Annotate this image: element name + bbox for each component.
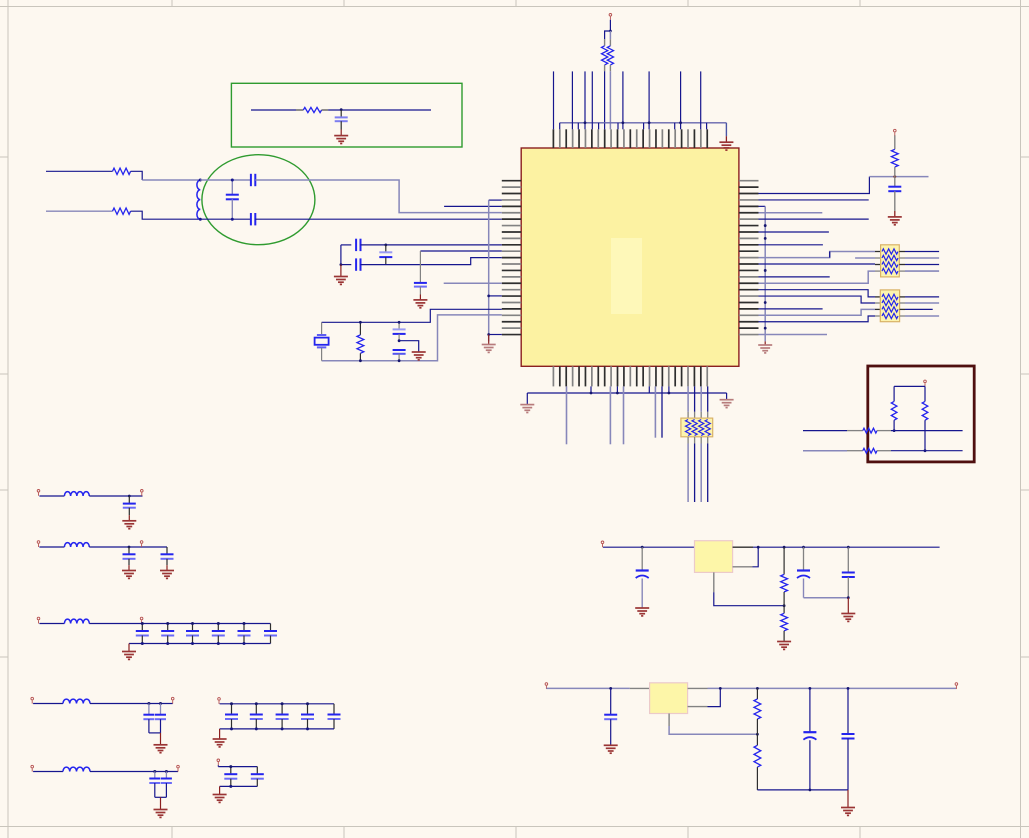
resistor R11 series line B xyxy=(863,448,877,453)
junction pin24 on vertical xyxy=(487,333,490,336)
resistor R9 xyxy=(922,401,928,420)
resistor RP1-2 xyxy=(882,255,898,260)
capacitor C7 vertical xyxy=(385,245,387,252)
wire top rail to U1 pin xyxy=(361,244,502,246)
resistor R13 lower xyxy=(783,606,785,614)
ground c3 xyxy=(122,652,136,660)
junction k23 right vertical xyxy=(764,327,767,330)
wire pin24 link xyxy=(489,334,502,336)
wire reg2 vout xyxy=(688,706,708,708)
capacitor C16 xyxy=(167,624,169,631)
wire bus drop x=598.6 xyxy=(598,123,600,130)
wire to R1 xyxy=(605,31,611,39)
wire vertical top pin x=700.7 xyxy=(700,71,702,129)
wire c5 gnd stem xyxy=(160,797,162,809)
resistor RP3-4 xyxy=(705,420,710,436)
wire long vertical below U1 x=655.4 xyxy=(654,386,656,437)
wire RP2-3 entry stub xyxy=(875,308,880,310)
wire reg2 rail right stub xyxy=(688,687,708,689)
inductor L6 xyxy=(63,767,90,771)
wire input top xyxy=(46,170,113,172)
resistor R14 upper xyxy=(756,688,758,699)
wire c3 rail to ground xyxy=(128,644,130,652)
capacitor C35 xyxy=(610,688,612,714)
ground C14 xyxy=(160,571,174,579)
ground c7 xyxy=(213,795,227,803)
capacitor C36 polarized xyxy=(809,688,811,731)
junction reg1 adj node xyxy=(783,604,786,607)
wire bus drop x=578.3 xyxy=(577,123,579,130)
wire pin k15 out xyxy=(759,276,830,278)
port P2 pull-up xyxy=(894,129,897,135)
junction top bus xyxy=(584,121,587,124)
wire R9 bottom stem xyxy=(924,420,926,451)
resistor R1 xyxy=(604,39,606,46)
wire pull-up node xyxy=(869,176,928,178)
wire RP1-4 entry stub xyxy=(875,270,881,272)
resistor RP2-2 xyxy=(882,300,898,305)
junction c4 b xyxy=(159,702,162,705)
wire R8 top stem xyxy=(893,386,895,401)
wire reg1 rail left xyxy=(603,546,695,548)
wire RP2-1 entry stub xyxy=(875,296,880,298)
resistor R8 xyxy=(891,401,897,420)
port P1 top xyxy=(609,14,612,20)
resistor pack RP2 body xyxy=(880,290,899,322)
wire pin k4 to right vertical xyxy=(759,205,766,207)
port P6 xyxy=(37,541,40,547)
capacitor C23 xyxy=(154,772,156,779)
wire pin k24 light short xyxy=(759,334,828,336)
wire pin k5 light xyxy=(759,212,823,214)
capacitor C28 xyxy=(307,704,309,714)
wire pin drop to bus x=591 xyxy=(590,386,592,393)
ground c5 xyxy=(154,810,168,818)
capacitor C2 series top line xyxy=(250,174,252,186)
wire c2 right xyxy=(89,546,167,548)
wire pin k8 out xyxy=(759,231,829,233)
port P4 xyxy=(37,490,40,496)
ground reg2 xyxy=(841,808,855,816)
junction reg2 rdiv rail xyxy=(756,687,759,690)
junction bottom bus b xyxy=(668,392,671,395)
bottom bus wire xyxy=(527,392,726,394)
ground R13 xyxy=(777,642,791,650)
wire R8 bottom stem xyxy=(893,420,895,430)
junction k7 right vertical xyxy=(764,224,767,227)
junction reg1 vout rail xyxy=(757,546,760,549)
wire port to R1/R2 xyxy=(609,20,611,31)
wire pin k16 jog up to RP1 xyxy=(759,271,876,283)
junction R3/C1 xyxy=(340,108,343,111)
wire bottom line to U1 xyxy=(255,218,501,220)
capacitor C18 xyxy=(217,624,219,631)
wire cap block left vertical xyxy=(340,245,342,265)
resistor RP2-3 xyxy=(882,307,898,312)
resistor R10 series line A xyxy=(863,428,877,433)
op-amp U1 MCU body xyxy=(521,148,739,366)
wire pin drop to bus x=649.3 xyxy=(648,386,650,393)
wire pin to RP3 col3 xyxy=(700,386,702,411)
junction caps mid xyxy=(398,339,401,342)
wire pin19 link xyxy=(489,295,502,297)
green annotation ellipse xyxy=(202,155,315,245)
regulator U2 body xyxy=(695,541,733,573)
capacitor C24 xyxy=(165,772,167,779)
wire light to U1 pin17 xyxy=(444,282,502,284)
wire pin drop to bus x=668.9 xyxy=(668,386,670,393)
ground bottom right bus xyxy=(720,400,734,408)
wire c7 bottom rail xyxy=(220,785,258,787)
wire reg1 cap link xyxy=(804,597,849,599)
junction L1 bottom xyxy=(199,218,202,221)
junction R9 line B xyxy=(924,449,927,452)
ground right vertical xyxy=(758,345,772,353)
wire line B right xyxy=(891,450,963,452)
capacitor C1 xyxy=(340,110,342,117)
junction bottom bus a xyxy=(590,392,593,395)
wire dark to U1 pin5 xyxy=(444,205,502,207)
capacitor C12 xyxy=(128,496,130,503)
junction top bus xyxy=(648,121,651,124)
wire right vertical ground stem xyxy=(764,341,766,345)
ground cap block xyxy=(334,277,348,285)
wire cap block ground stem xyxy=(340,265,342,277)
ground bottom left bus xyxy=(520,405,534,413)
ground crystal caps xyxy=(412,352,426,360)
wire RP2-2 exit xyxy=(900,302,905,304)
junction L1 top xyxy=(199,179,202,182)
wire divider top xyxy=(894,385,925,387)
capacitor C8 xyxy=(419,251,421,282)
junction reg2 cin xyxy=(609,687,612,690)
inductor L4 xyxy=(64,619,89,623)
wire RP3 col4 down xyxy=(707,437,709,444)
capacitor C22 xyxy=(160,704,162,715)
wire bus drop x=706.6 xyxy=(706,123,708,130)
port P13 xyxy=(177,765,180,771)
capacitor C4 vertical xyxy=(231,180,233,194)
wire bottom line to C3 xyxy=(200,218,250,220)
ground pull-up xyxy=(888,217,902,225)
wire caps mid to ground xyxy=(399,341,419,352)
junction reg2 c2 rail xyxy=(809,687,812,690)
port P12 xyxy=(31,765,34,771)
wire U1 pin4 corner xyxy=(489,199,502,201)
wire crystal left top stem xyxy=(321,322,323,335)
wire c3 left xyxy=(39,623,64,625)
wire bus right end to ground xyxy=(725,123,727,136)
capacitor C37 xyxy=(847,688,849,733)
wire vertical top pin x=622.9 xyxy=(622,71,624,129)
wire RC filter left xyxy=(251,109,296,111)
wire pin to RP3 col4 xyxy=(707,386,709,411)
wire bottom rail step to U1 xyxy=(361,258,502,265)
resistor R4 xyxy=(113,168,131,174)
resistor R6 xyxy=(359,322,361,335)
top bus wire xyxy=(560,122,727,124)
wire reg2 gnd stem xyxy=(847,790,849,808)
resistor R3 xyxy=(303,107,321,112)
ground C13 xyxy=(122,571,136,579)
wire c6 bottom rail xyxy=(220,728,334,730)
resistor RP2-4 xyxy=(882,313,898,318)
wire c3 right xyxy=(89,623,270,625)
wire pin k10 out xyxy=(759,244,823,246)
wire vertical top pin x=592.3 xyxy=(591,71,593,129)
wire pin k12 jog up to RP1 xyxy=(759,252,876,258)
wire line B left xyxy=(803,450,847,452)
wire R2 down to pin xyxy=(609,71,611,129)
wire RP1-1 exit xyxy=(899,251,905,253)
resistor R12 upper xyxy=(783,547,785,574)
junction reg2 vout rail xyxy=(719,687,722,690)
wire reg1 adj xyxy=(713,572,715,592)
wire line A right xyxy=(891,430,963,432)
wire RP2-2 entry stub xyxy=(875,302,880,304)
wire reg1 gnd stem xyxy=(847,598,849,614)
dark red annotation rectangle xyxy=(868,366,974,462)
junction reg1 rdiv rail xyxy=(783,546,786,549)
wire top line to C2 xyxy=(200,179,250,181)
wire pin drop to bus x=617.4 xyxy=(616,386,618,393)
junction bottom bus c xyxy=(616,392,619,395)
wire bus left end to ground xyxy=(526,393,528,405)
wire RP2-1 exit xyxy=(900,296,905,298)
junction c5 b xyxy=(165,770,168,773)
regulator U3 body xyxy=(650,683,688,714)
wire c4 left xyxy=(33,703,63,705)
junction top bus xyxy=(622,121,625,124)
wire RP2-4 entry stub xyxy=(875,315,880,317)
resistor pack RP3 body xyxy=(681,418,713,437)
wire pin k22 jog up to RP2 xyxy=(759,316,876,322)
wire c4 right xyxy=(90,703,173,705)
junction reg1 c3 rail xyxy=(847,546,850,549)
port P15 xyxy=(217,759,220,765)
capacitor C33 polarized xyxy=(803,547,805,570)
capacitor C17 xyxy=(192,624,194,631)
resistor RP1-3 xyxy=(882,262,898,267)
wire pin k3 stub out xyxy=(759,199,869,201)
wire pin k21 jog up to RP2 xyxy=(759,309,876,315)
resistor R15 lower xyxy=(756,734,758,745)
wire RP3 col3 down xyxy=(700,437,702,444)
wire crystal left bottom stem xyxy=(321,348,323,361)
capacitor C32 polarized xyxy=(641,547,643,570)
ground c6 xyxy=(213,739,227,747)
wire bus left end down xyxy=(559,123,561,130)
wire c6 top rail xyxy=(220,703,334,705)
wire reg1 vout xyxy=(733,566,753,568)
ground left vertical xyxy=(482,345,496,353)
capacitor C27 xyxy=(281,704,283,714)
wire pin k13 to RP1 xyxy=(759,263,876,265)
resistor R7 pull-up xyxy=(894,135,896,149)
wire long vertical below U1 x=566.5 xyxy=(566,386,568,444)
resistor pack RP1 body xyxy=(881,245,900,277)
wire C8 line to U1 xyxy=(420,250,501,252)
crystal Y1 xyxy=(317,334,326,336)
wire RP1-4 exit xyxy=(899,270,905,272)
wire top rail to C5 xyxy=(341,244,351,246)
capacitor C14 xyxy=(166,547,168,554)
ground top right of U1 xyxy=(719,142,733,150)
wire pin k2 to pull-up xyxy=(759,177,870,194)
wire stem R2 xyxy=(609,31,611,39)
junction c5 a xyxy=(153,770,156,773)
capacitor C31 xyxy=(256,767,258,774)
wire line A left xyxy=(803,430,847,432)
ground C35 xyxy=(604,745,618,753)
resistor RP3-2 xyxy=(692,420,697,436)
wire pin to RP3 col2 xyxy=(694,386,696,411)
wire c6 gnd stem xyxy=(219,729,221,739)
junction c4 a xyxy=(147,702,150,705)
wire reg2 in stub xyxy=(630,687,650,689)
capacitor C5 series xyxy=(355,239,357,251)
port P17 xyxy=(545,683,548,689)
port P5 xyxy=(141,490,144,496)
junction reg2 c2 bottom xyxy=(809,789,812,792)
inductor L3 xyxy=(64,543,89,547)
wire RP2-3 exit xyxy=(900,308,905,310)
inductor L1 vertical xyxy=(197,180,200,219)
junction pull-up node xyxy=(893,175,896,178)
port P11 xyxy=(171,697,174,703)
wire vertical top pin x=572.4 xyxy=(571,71,573,129)
capacitor C25 xyxy=(231,704,233,714)
wire R9 top stem xyxy=(924,386,926,401)
ground C8 xyxy=(413,300,427,308)
resistor RP1-1 xyxy=(882,249,898,254)
wire c4 cap link xyxy=(149,732,161,734)
junction reg2 c3 rail xyxy=(847,687,850,690)
wire c7 gnd stem xyxy=(219,786,221,794)
wire long vertical below U1 x=623.5 xyxy=(623,386,625,444)
port P18 xyxy=(955,683,958,689)
wire c7 top rail xyxy=(218,766,257,768)
resistor R5 xyxy=(113,208,131,214)
capacitor C10 bottom xyxy=(393,349,406,351)
inductor L2 xyxy=(64,492,89,496)
wire bus right end to ground xyxy=(726,393,728,400)
wire crystal bottom rail xyxy=(322,315,502,361)
U1 bottom pin stubs xyxy=(553,366,707,386)
wire c5 left xyxy=(33,771,63,773)
wire after R4 xyxy=(131,171,143,180)
wire c2 xyxy=(39,546,64,548)
capacitor C13 xyxy=(128,547,130,554)
wire RP1-3 exit xyxy=(899,264,905,266)
wire bus drop x=674.7 xyxy=(674,123,676,130)
wire bottom rail to C6 xyxy=(341,264,351,266)
junction k14 right vertical xyxy=(764,269,767,272)
wire c5 cap link xyxy=(155,796,167,798)
port P16 xyxy=(601,541,604,547)
port P10 xyxy=(31,697,34,703)
junction reg1 c2 rail xyxy=(802,546,805,549)
wire RP1-1 entry stub xyxy=(875,251,881,253)
junction reg1 cin xyxy=(641,546,644,549)
inductor L5 xyxy=(63,699,90,703)
port P3 divider xyxy=(924,380,927,386)
capacitor C30 xyxy=(230,767,232,774)
wire right long vertical xyxy=(764,206,766,341)
junction reg2 adj node xyxy=(756,733,759,736)
capacitor C9 top xyxy=(398,322,400,329)
wire c1 left xyxy=(39,495,64,497)
resistor RP2-1 xyxy=(882,294,898,299)
wire pin k20 short xyxy=(759,308,823,310)
wire input bottom xyxy=(46,210,113,212)
capacitor C15 xyxy=(141,624,143,631)
U1 left pin stubs xyxy=(502,181,521,335)
wire RP1-2 exit xyxy=(899,257,905,259)
junction R8 line A xyxy=(893,429,896,432)
wire long vertical below U1 x=610.4 xyxy=(609,386,611,444)
wire reg2 bottom rail xyxy=(757,789,848,791)
capacitor C3 series bottom line xyxy=(250,213,252,225)
ground reg1 xyxy=(841,614,855,622)
wire after R5 xyxy=(131,211,201,219)
junction top resistors xyxy=(609,30,612,33)
wire bus drop x=618 xyxy=(617,123,619,130)
wire c3 bottom rail xyxy=(129,643,271,645)
junction top bus xyxy=(679,121,682,124)
ground C1 xyxy=(334,136,348,144)
wire c4 gnd stem xyxy=(160,733,162,745)
resistor RP3-1 xyxy=(686,420,691,436)
wire reg1 rail right xyxy=(733,546,753,548)
wire reg2 adj xyxy=(668,714,670,727)
junction k19 right vertical xyxy=(764,301,767,304)
wire R1 down to pin xyxy=(604,71,606,129)
wire pin k17 jog down to RP2 xyxy=(759,290,876,297)
wire RP3 col2 down xyxy=(694,437,696,444)
capacitor C29 xyxy=(333,704,335,714)
junction pin19 on vertical xyxy=(487,295,490,298)
wire c7 port stem xyxy=(217,765,219,766)
junction bottom rail left xyxy=(340,263,343,266)
junction C7 top xyxy=(384,244,387,247)
wire vertical top pin x=553.5 xyxy=(553,71,555,129)
junction reg1 c3 bottom xyxy=(847,596,850,599)
capacitor C20 xyxy=(270,624,272,631)
wire pin to RP3 col1 xyxy=(687,386,689,411)
U1 right pin stubs xyxy=(739,181,759,335)
wire RP2-4 exit xyxy=(900,315,905,317)
ground c4 xyxy=(154,745,168,753)
capacitor C21 xyxy=(148,704,150,715)
wire top line to step xyxy=(255,180,501,213)
junction c2 cap1 xyxy=(128,546,131,549)
resistor R2 xyxy=(609,39,611,46)
wire RP1-3 entry stub xyxy=(875,264,881,266)
U1 top pin stubs xyxy=(553,129,707,148)
wire RP1 r2 entry xyxy=(855,257,875,259)
capacitor C34 xyxy=(847,547,849,572)
wire bus drop x=643.6 xyxy=(643,123,645,130)
wire pin k6 out xyxy=(759,218,869,220)
wire RP3 col1 down xyxy=(687,437,689,444)
wire left long vertical xyxy=(488,200,490,341)
port P14 xyxy=(218,698,221,704)
wire crystal top rail xyxy=(322,309,502,322)
capacitor C19 xyxy=(243,624,245,631)
green annotation rectangle xyxy=(231,83,462,147)
wire vertical top pin x=585 xyxy=(584,71,586,129)
